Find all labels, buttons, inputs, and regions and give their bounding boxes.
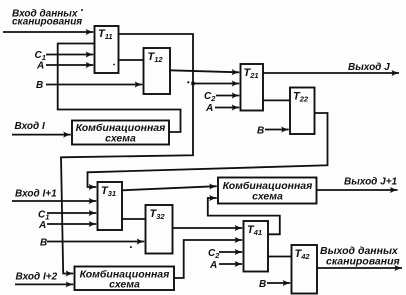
- wire C1 to T31: [47, 212, 96, 214]
- speck dot: [187, 81, 189, 83]
- trigger T32: [146, 205, 173, 254]
- svg-text:схема: схема: [105, 133, 136, 145]
- wire C2 to T21: [216, 95, 239, 97]
- wire T32 output to T41: [173, 227, 243, 229]
- wire T31 output to T32: [122, 218, 146, 220]
- svg-text:A: A: [36, 61, 44, 72]
- svg-text:B: B: [40, 238, 47, 249]
- junction at T21 branch: [191, 82, 194, 85]
- trigger T42: [292, 245, 318, 294]
- combinational circuit box 1: [72, 121, 169, 145]
- wire T11 output to T12: [119, 59, 144, 61]
- wire B to T42: [267, 282, 290, 284]
- svg-text:A: A: [38, 220, 46, 231]
- wire T31 output to comb schema 2: [122, 186, 217, 190]
- wire C1 to T11: [46, 54, 93, 56]
- wire A to T41: [219, 263, 242, 265]
- wire B to T22: [265, 129, 289, 131]
- svg-text:сканирования: сканирования: [12, 17, 82, 28]
- trigger T21: [241, 64, 264, 111]
- wire B to T12: [46, 84, 142, 86]
- wire A to T11: [46, 64, 93, 66]
- wire input I+2 to comb schema 3: [15, 283, 73, 285]
- wire scan data input to T11: [3, 31, 93, 33]
- wire comb schema 3 output to T41: [174, 240, 242, 278]
- wire scan data output: [317, 267, 402, 269]
- wire T22 scan output to T31: [88, 113, 328, 187]
- svg-text:B: B: [259, 279, 266, 290]
- trigger T41: [244, 221, 269, 272]
- svg-text:схема: схема: [252, 191, 283, 203]
- trigger T12: [144, 48, 171, 94]
- trigger T11: [95, 26, 119, 73]
- svg-text:Вход I+2: Вход I+2: [16, 272, 58, 283]
- wire comb schema 1 output to T11 D input: [58, 44, 181, 133]
- wire input I+1 to T31: [12, 200, 96, 202]
- trigger T22: [290, 88, 315, 135]
- svg-text:Вход I: Вход I: [15, 121, 45, 132]
- wire T21 output to T22: [263, 99, 290, 101]
- wire output J: [263, 72, 399, 74]
- trigger T31: [98, 182, 123, 230]
- svg-text:Выход J: Выход J: [348, 62, 390, 73]
- combinational circuit box 2: [218, 178, 317, 204]
- svg-text:Вход I+1: Вход I+1: [15, 189, 57, 200]
- wire branch to T21 second input: [193, 83, 239, 85]
- speck comma in T11: [113, 64, 115, 66]
- speck below T31: [130, 246, 132, 248]
- wire A to T21: [215, 107, 239, 109]
- wire A to T31: [47, 223, 96, 225]
- speck mark top: [81, 9, 83, 11]
- wire output J+1: [317, 189, 398, 191]
- wire T41 output to T42: [268, 256, 292, 258]
- wire B to T32: [47, 241, 144, 243]
- svg-text:Выход J+1: Выход J+1: [344, 177, 398, 188]
- svg-text:схема: схема: [109, 279, 140, 291]
- svg-text:B: B: [257, 126, 264, 137]
- svg-text:сканирования: сканирования: [326, 256, 400, 268]
- svg-text:B: B: [36, 80, 43, 91]
- wire input I to comb schema 1: [12, 134, 71, 136]
- svg-text:A: A: [205, 103, 213, 114]
- svg-text:A: A: [209, 260, 217, 271]
- wire C2 to T41: [219, 251, 242, 253]
- wire T12 output to T21: [170, 70, 239, 72]
- wire T41 feedback to comb schema 2: [208, 198, 280, 234]
- wire T11 scan output down to comb schema 3: [61, 34, 193, 274]
- combinational circuit box 3: [75, 267, 175, 291]
